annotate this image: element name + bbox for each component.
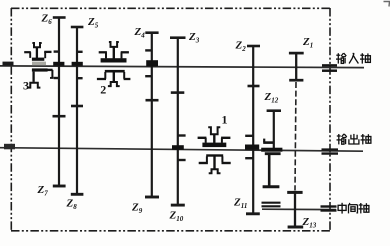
frame border left (dash-dot) — [10, 8, 12, 231]
clutch 3 (on input shaft, left) — [24, 43, 53, 88]
label 输入轴 (input shaft, drawn strokes) — [336, 53, 370, 64]
gear line Z5/Z8 (x=77) — [71, 27, 84, 195]
svg-text:Z12: Z12 — [264, 91, 279, 105]
hub of gear Z4 on input shaft — [146, 60, 158, 66]
label 输出轴 (output shaft, drawn strokes) — [337, 134, 371, 145]
clutch 1 (double dog clutch on output shaft) — [198, 127, 231, 173]
svg-text:Z6: Z6 — [41, 13, 53, 27]
axis centerline between Z1 and Z13 (dash-dot) — [295, 82, 296, 190]
svg-text:3: 3 — [23, 78, 29, 92]
svg-text:Z2: Z2 — [235, 40, 247, 54]
svg-text:Z10: Z10 — [169, 210, 184, 224]
svg-text:Z5: Z5 — [87, 16, 99, 30]
frame border right / axis line (dash-dot vertical at x=330) — [329, 8, 331, 231]
bearing: input shaft left end — [3, 62, 14, 66]
label 中间轴 (intermediate shaft, drawn strokes) — [338, 203, 369, 214]
frame border top (dash-dot) — [11, 7, 331, 9]
output shaft — [0, 148, 363, 152]
frame border bottom (dash-dot) — [11, 230, 331, 232]
svg-text:Z1: Z1 — [302, 36, 313, 50]
intermediate shaft — [262, 208, 336, 210]
hub of gear Z6 on input shaft — [53, 62, 64, 66]
svg-text:1: 1 — [222, 113, 228, 127]
bearing: intermediate shaft left end — [262, 203, 281, 207]
scan artifact top-right corner — [384, 2, 390, 7]
bearing: output shaft left end — [4, 144, 15, 150]
hub of gear Z11 on output shaft — [245, 145, 259, 150]
dog-tooth claw left of Z12 hub — [263, 139, 273, 143]
bearing: input shaft at x=330 — [322, 65, 337, 70]
svg-text:Z11: Z11 — [233, 197, 247, 211]
clutch 1 sleeve bases — [202, 143, 226, 148]
gear Z1 on input shaft (x=296.2) — [289, 52, 304, 81]
svg-text:Z8: Z8 — [66, 198, 78, 212]
gear line Z6/Z7 (x=59) — [53, 17, 66, 187]
clutch 2 sleeve bases — [101, 58, 127, 62]
gear line Z2/Z11 (x=253.2) — [245, 46, 260, 215]
svg-text:Z7: Z7 — [37, 184, 49, 198]
svg-text:Z13: Z13 — [302, 216, 317, 230]
hub of gear Z5 on input shaft — [72, 62, 83, 66]
hub of gear Z10 on output shaft — [172, 145, 184, 150]
clutch 2 (double dog clutch on input shaft) — [97, 42, 130, 86]
gear line Z4/Z9 (x=151.8) — [145, 32, 159, 197]
svg-text:2: 2 — [100, 83, 106, 97]
bearing: intermediate shaft at x=330 — [321, 207, 337, 211]
gear line Z3/Z10 (x=177.8) — [170, 37, 186, 205]
gear Z13 on intermediate shaft (x=295) — [287, 191, 303, 229]
reverse gear below output shaft (x=269.2) — [263, 153, 281, 187]
hub of gear Z12 on output shaft — [261, 148, 282, 152]
gear Z12 line above output shaft (x=273.8) — [267, 110, 281, 148]
svg-text:Z4: Z4 — [134, 26, 146, 40]
clutch 3 sleeve bases — [32, 58, 44, 61]
bearing: output shaft at x=330 — [322, 150, 339, 154]
clutch 3 gray sleeve on shaft — [32, 62, 46, 66]
svg-text:Z9: Z9 — [131, 202, 143, 216]
input shaft — [0, 66, 364, 68]
svg-text:Z3: Z3 — [188, 31, 200, 45]
